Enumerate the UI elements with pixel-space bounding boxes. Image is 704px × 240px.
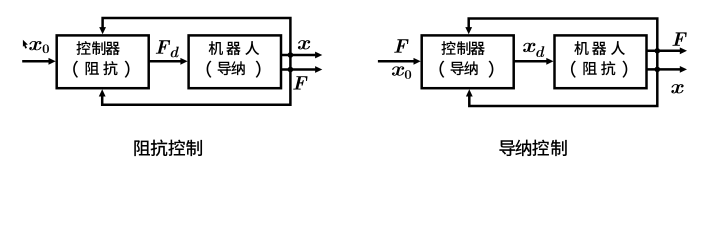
arrowhead: left input [49,58,56,65]
arrowhead: top feedback into controller [99,27,106,34]
caption 阻抗控制 [134,140,150,156]
arrowhead: output F right [680,47,687,54]
wire: output x [281,54,315,57]
label xd subscript d [536,46,544,57]
label Fd (bold italic F) [156,40,170,53]
text （阻抗） [73,61,78,78]
junction node on x line right [655,67,661,73]
label output F right [672,32,686,45]
text （导纳） [207,61,212,78]
text （阻抗） right [571,61,576,78]
text 机器人 [209,41,223,55]
arrowhead: top feedback into right controller [465,27,472,34]
cursor glyph artifact [23,40,28,49]
text 控制器 right [441,41,455,55]
arrowhead: bottom feedback into right controller [466,89,473,96]
text 控制器 [76,41,90,55]
wire: top feedback loop left [103,18,291,70]
label x0 (bold italic x) [29,41,41,50]
junction node on x line [288,52,294,58]
caption 导纳控制 [499,140,515,156]
arrowhead: right input [414,58,421,65]
label output x right [671,84,683,93]
label output F [293,76,307,89]
label Fd subscript d [171,47,179,58]
arrowhead: bottom feedback into controller [99,89,106,96]
arrowhead: output F [315,66,322,73]
arrowhead: xd [546,58,553,65]
block: 控制器（导纳） box [422,35,514,88]
label input F [394,39,408,52]
wire: right input into controller [378,60,414,63]
block: 机器人（导纳） box [189,35,281,88]
label input x subscript 0 [405,70,411,79]
block: 机器人（阻抗） box [555,35,647,88]
wire: Fd from controller to robot [149,60,181,63]
wire: bottom feedback loop left [102,70,290,105]
label output x [298,40,310,49]
wire: output F right [647,50,681,53]
wire: output F [281,68,315,71]
label input x [392,66,404,75]
junction node on F line right [655,48,661,54]
block: 控制器（阻抗） box [57,35,149,88]
arrowhead: output x [315,52,322,59]
text （导纳） right [439,61,444,78]
wire: output x right [647,68,681,71]
junction node on F line [288,67,294,73]
label x0 subscript 0 [43,45,49,54]
arrowhead: Fd [180,58,187,65]
wire: top feedback loop right [469,19,658,70]
text 机器人 right [574,41,588,55]
wire: xd from controller to robot [514,60,547,63]
label xd (bold italic x) [523,43,535,52]
wire: left input x0 into controller [22,60,49,63]
arrowhead: output x right [680,66,687,73]
wire: bottom feedback loop right [469,69,657,106]
